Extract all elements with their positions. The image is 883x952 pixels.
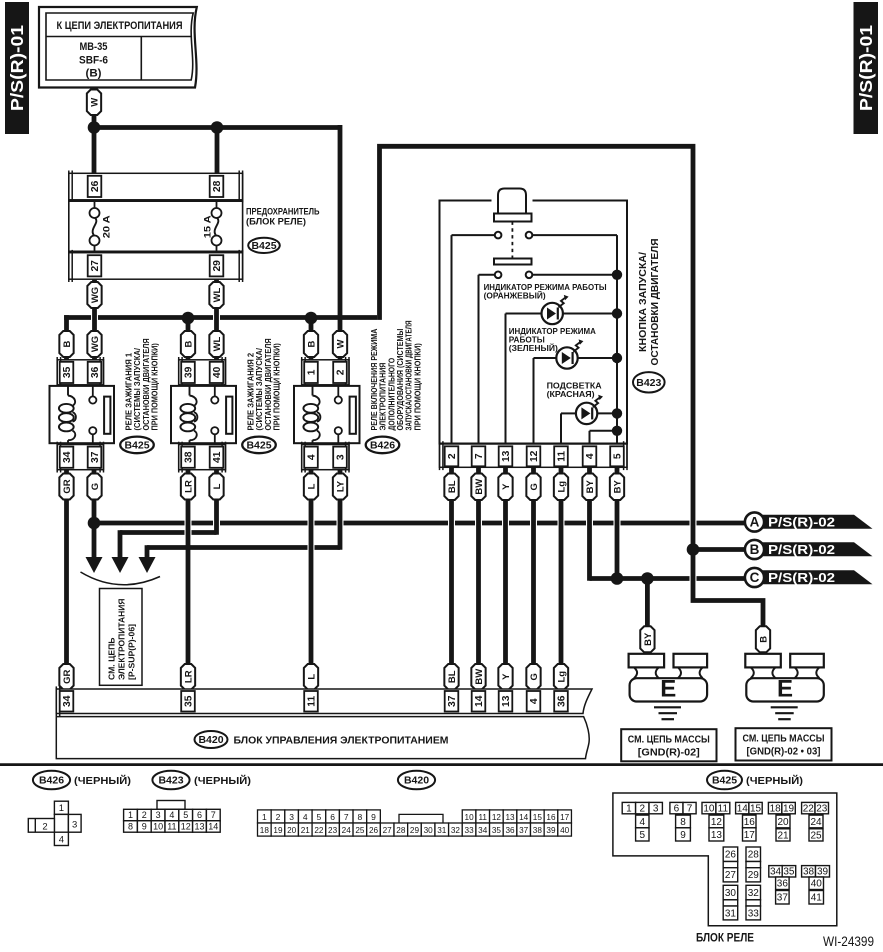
button pin 2 (445, 446, 459, 466)
wire button Lg to control unit (559, 460, 564, 695)
svg-text:B: B (62, 340, 73, 347)
svg-text:19: 19 (273, 826, 283, 835)
svg-text:26: 26 (90, 180, 101, 192)
header box K CEPI ELEKTROPITANIYA (39, 7, 197, 88)
svg-text:15 A: 15 A (202, 215, 213, 238)
svg-text:14: 14 (474, 695, 485, 707)
svg-text:11: 11 (478, 813, 487, 822)
svg-text:(ЧЕРНЫЙ): (ЧЕРНЫЙ) (74, 774, 131, 787)
wire fuse 29 output WL (214, 255, 219, 381)
svg-text:35: 35 (492, 826, 502, 835)
svg-text:3: 3 (156, 810, 161, 820)
svg-text:MB-35: MB-35 (80, 41, 108, 53)
svg-text:14: 14 (737, 804, 749, 815)
svg-text:16: 16 (744, 817, 756, 828)
svg-text:C: C (750, 570, 760, 585)
wire pin4 jog (590, 430, 618, 432)
B425 group 10-13 (702, 802, 716, 813)
svg-text:5: 5 (183, 810, 188, 820)
connector ref B425 fuse (248, 238, 280, 253)
svg-text:WL: WL (212, 287, 223, 302)
svg-text:36: 36 (557, 695, 568, 707)
svg-text:5: 5 (613, 453, 624, 459)
svg-text:39: 39 (184, 366, 195, 378)
wire label WG below fuse (87, 282, 101, 308)
svg-text:2: 2 (42, 821, 47, 832)
svg-text:W: W (335, 339, 346, 348)
svg-text:(СИСТЕМЫ ЗАПУСКА/: (СИСТЕМЫ ЗАПУСКА/ (133, 347, 142, 430)
arrow to power supply circuit 1 (86, 557, 103, 573)
svg-text:37: 37 (90, 451, 101, 463)
pin 26 (88, 176, 102, 197)
svg-text:12: 12 (181, 822, 191, 832)
svg-text:29: 29 (748, 870, 760, 881)
wire labels below button unit (444, 474, 458, 501)
svg-text:КНОПКА ЗАПУСКА/: КНОПКА ЗАПУСКА/ (638, 252, 649, 352)
svg-text:WG: WG (90, 287, 101, 303)
svg-text:(ЧЕРНЫЙ): (ЧЕРНЫЙ) (194, 774, 251, 787)
svg-text:[GND(R)-02 • 03]: [GND(R)-02 • 03] (747, 747, 821, 758)
svg-text:B425: B425 (251, 240, 276, 252)
svg-text:27: 27 (383, 826, 393, 835)
svg-text:ЭЛЕКТРОПИТАНИЯ: ЭЛЕКТРОПИТАНИЯ (116, 598, 126, 680)
left ground reference box (621, 729, 716, 761)
svg-text:41: 41 (212, 451, 223, 463)
svg-text:BW: BW (474, 669, 485, 685)
fuse block body (69, 201, 243, 251)
relay U2 bottom connector row (179, 445, 226, 470)
svg-text:32: 32 (748, 888, 760, 899)
svg-text:40: 40 (811, 879, 823, 890)
control unit box B420 (56, 717, 589, 759)
svg-text:ЗАПУСКА/ОСТАНОВКИ ДВИГАТЕЛЯ: ЗАПУСКА/ОСТАНОВКИ ДВИГАТЕЛЯ (405, 320, 414, 430)
svg-text:13: 13 (711, 830, 723, 841)
wire contact1 left to pin2 (452, 234, 495, 236)
svg-text:9: 9 (142, 822, 147, 832)
svg-text:G: G (90, 483, 101, 490)
svg-text:11: 11 (167, 822, 176, 832)
svg-text:12: 12 (711, 817, 723, 828)
svg-text:LR: LR (183, 480, 194, 493)
svg-text:32: 32 (451, 826, 461, 835)
svg-text:14: 14 (519, 813, 529, 822)
svg-text:WI-24399: WI-24399 (823, 934, 874, 949)
relay U3 coil (312, 386, 314, 396)
wire relay U3 pin4 L down to control unit (309, 460, 314, 695)
svg-text:К ЦЕПИ ЭЛЕКТРОПИТАНИЯ: К ЦЕПИ ЭЛЕКТРОПИТАНИЯ (57, 20, 183, 32)
wire labels below relay U2 (181, 474, 195, 500)
B425 column 32-33 (746, 885, 761, 900)
svg-text:SBF-6: SBF-6 (79, 55, 108, 67)
svg-text:B423: B423 (158, 775, 183, 787)
relay U2 contact (214, 386, 216, 396)
svg-text:41: 41 (811, 893, 823, 904)
svg-text:28: 28 (212, 180, 223, 192)
wire main feed bus y=127 (89, 125, 340, 130)
svg-text:LR: LR (183, 670, 194, 683)
junction dot feed-1 (88, 121, 101, 134)
svg-text:(ЗЕЛЕНЫЙ): (ЗЕЛЕНЫЙ) (509, 342, 558, 353)
junction dot node B (687, 543, 700, 556)
svg-text:12: 12 (492, 813, 502, 822)
svg-text:40: 40 (560, 826, 570, 835)
svg-text:22: 22 (314, 826, 324, 835)
wire labels above relay U2 (181, 331, 195, 357)
button pin 4 (583, 446, 597, 466)
wire fuse 27 output WG (92, 255, 97, 381)
LED2 green mode indicator (556, 347, 577, 368)
wire label WL below fuse (209, 282, 223, 308)
node A wire from relay U1 pin37 to banner A (94, 521, 185, 526)
svg-text:26: 26 (725, 850, 737, 861)
connector ref B426 for relay U3 (366, 437, 400, 454)
svg-text:24: 24 (810, 817, 822, 828)
wire relay U1 pin34 GR down to control unit (64, 460, 69, 695)
pin 28 (210, 176, 224, 197)
svg-text:[P-SUP(P)-06]: [P-SUP(P)-06] (126, 624, 136, 680)
relay U1 coil (67, 386, 69, 396)
button plunger dashed link (511, 222, 513, 259)
svg-text:26: 26 (369, 826, 379, 835)
svg-text:1: 1 (307, 369, 318, 375)
svg-text:15: 15 (750, 804, 762, 815)
svg-text:1: 1 (262, 812, 267, 822)
svg-text:12: 12 (529, 450, 540, 462)
page tab P/S(R)-01 left (5, 2, 29, 134)
switch contact pair 2 (495, 272, 502, 279)
svg-text:24: 24 (342, 826, 352, 835)
connector B425 relay box pin view (613, 793, 837, 926)
svg-text:ОСТАНОВКИ ДВИГАТЕЛЯ: ОСТАНОВКИ ДВИГАТЕЛЯ (142, 338, 151, 430)
svg-text:31: 31 (437, 826, 447, 835)
svg-text:BY: BY (612, 479, 623, 493)
junction dot node C / ground wire (641, 572, 654, 585)
connector ref B420 bottom (398, 771, 435, 790)
connector ref B425 for relay U2 (242, 437, 276, 454)
relay U2 body (171, 386, 236, 443)
svg-text:BL: BL (447, 670, 458, 683)
svg-text:ДОПОЛНИТЕЛЬНОГО: ДОПОЛНИТЕЛЬНОГО (387, 358, 396, 431)
wire B bus left drop to relay U1 pin35 (64, 315, 69, 364)
node B wire to banner B (693, 547, 745, 552)
svg-text:20 A: 20 A (101, 215, 112, 238)
svg-text:6: 6 (674, 804, 680, 815)
svg-text:28: 28 (748, 850, 760, 861)
right ground terminal E (745, 654, 781, 668)
wire labels below relay U3 (304, 474, 318, 500)
wire contact1 right to bus (532, 234, 617, 236)
B425 group 14-17 (736, 802, 749, 813)
svg-text:18: 18 (260, 826, 270, 835)
white gaps in box edge around button cap (492, 198, 533, 203)
button movable contact bar (494, 259, 532, 265)
svg-text:11: 11 (307, 696, 318, 707)
svg-text:(B): (B) (86, 68, 102, 80)
B425 column 28-29 (746, 847, 761, 862)
svg-text:ПРЕДОХРАНИТЕЛЬ: ПРЕДОХРАНИТЕЛЬ (246, 207, 320, 217)
svg-text:35: 35 (184, 695, 195, 707)
wire button Y to control unit (503, 460, 508, 695)
svg-text:[GND(R)-02]: [GND(R)-02] (638, 748, 700, 759)
B425 column 26-27 (723, 847, 738, 862)
junction dot feed-2 (211, 121, 224, 134)
button cap (498, 189, 526, 215)
svg-text:G: G (529, 673, 540, 680)
svg-text:P/S(R)-01: P/S(R)-01 (7, 25, 27, 111)
svg-text:39: 39 (817, 867, 829, 878)
wire relay U3 pin3 LY jog to arrow 3 (338, 460, 343, 550)
svg-text:4: 4 (585, 453, 596, 459)
svg-text:2: 2 (276, 812, 281, 822)
svg-text:18: 18 (770, 804, 782, 815)
svg-text:B425: B425 (712, 775, 737, 787)
svg-text:B425: B425 (124, 440, 149, 452)
svg-text:Lg: Lg (556, 481, 567, 493)
svg-text:BW: BW (474, 479, 485, 495)
svg-text:GR: GR (62, 669, 73, 683)
svg-text:7: 7 (687, 804, 693, 815)
svg-text:ПРИ ПОМОЩИ КНОПКИ): ПРИ ПОМОЩИ КНОПКИ) (273, 343, 282, 431)
B425 column 30-31 (723, 885, 738, 900)
svg-text:B: B (306, 340, 317, 347)
svg-text:B: B (750, 542, 760, 557)
svg-text:БЛОК УПРАВЛЕНИЯ ЭЛЕКТРОПИТАНИЕ: БЛОК УПРАВЛЕНИЯ ЭЛЕКТРОПИТАНИЕМ (234, 734, 449, 746)
B425 group 18-21 (768, 802, 781, 813)
svg-text:3: 3 (289, 812, 294, 822)
svg-text:38: 38 (533, 826, 543, 835)
svg-text:2: 2 (142, 810, 147, 820)
svg-text:14: 14 (208, 822, 218, 832)
svg-text:Lg: Lg (556, 671, 567, 683)
control unit pin 14 (472, 691, 486, 712)
svg-text:30: 30 (424, 826, 434, 835)
svg-text:(ОРАНЖЕВЫЙ): (ОРАНЖЕВЫЙ) (484, 290, 546, 301)
svg-text:9: 9 (371, 812, 376, 822)
svg-text:31: 31 (725, 908, 737, 919)
svg-text:(СИСТЕМЫ ЗАПУСКА/: (СИСТЕМЫ ЗАПУСКА/ (255, 347, 264, 430)
svg-text:34: 34 (62, 451, 73, 463)
svg-text:20: 20 (777, 817, 789, 828)
svg-text:ОСТАНОВКИ ДВИГАТЕЛЯ: ОСТАНОВКИ ДВИГАТЕЛЯ (264, 338, 273, 430)
control unit pin 4 (527, 691, 541, 712)
B425 group 38-41 (802, 866, 816, 877)
svg-text:P/S(R)-02: P/S(R)-02 (768, 515, 835, 530)
B425 group 1-5 (622, 802, 635, 813)
connector banner B to P/S(R)-02 (755, 542, 873, 556)
junction dot B bus / U2 (182, 312, 195, 325)
fuse F2 15A (212, 208, 222, 218)
wire junction to fuse 28 (215, 128, 220, 181)
svg-text:25: 25 (810, 830, 822, 841)
connector ref B423 (633, 372, 665, 392)
wire labels above control unit (59, 664, 73, 690)
svg-text:B423: B423 (636, 377, 661, 389)
svg-text:4: 4 (307, 454, 318, 460)
svg-text:17: 17 (560, 813, 570, 822)
svg-text:BL: BL (447, 480, 458, 493)
svg-text:13: 13 (501, 450, 512, 462)
svg-text:LY: LY (335, 480, 346, 492)
svg-text:33: 33 (748, 908, 760, 919)
wire relay U1 pin37 G down to node A line (92, 460, 97, 560)
svg-text:РЕЛЕ ВКЛЮЧЕНИЯ РЕЖИМА: РЕЛЕ ВКЛЮЧЕНИЯ РЕЖИМА (370, 328, 379, 430)
svg-text:25: 25 (355, 826, 365, 835)
LED3 red backlight wires (561, 412, 576, 414)
svg-text:L: L (306, 674, 317, 680)
svg-text:E: E (777, 676, 793, 703)
B425 group 6-9 (670, 802, 683, 813)
control unit pin 11 (304, 691, 318, 712)
wire button G to control unit (531, 460, 536, 695)
button unit connector row (440, 444, 628, 467)
svg-text:7: 7 (344, 812, 349, 822)
svg-text:2: 2 (336, 369, 347, 375)
connector ref B425 for relay U1 (120, 437, 154, 454)
wire vertical feed to relay U3 pin2 (338, 125, 343, 365)
connector B420 pin view (258, 810, 272, 823)
junction dot node C / BY pin5 (611, 572, 624, 585)
wire button BL to control unit (449, 460, 454, 695)
svg-text:3: 3 (72, 819, 77, 830)
relay U1 top connector row (57, 360, 103, 385)
svg-text:РЕЛЕ ЗАЖИГАНИЯ 1: РЕЛЕ ЗАЖИГАНИЯ 1 (124, 352, 133, 430)
svg-text:4: 4 (59, 835, 64, 846)
button pin 13 (499, 446, 513, 466)
svg-text:40: 40 (212, 366, 223, 378)
relay U1 bottom connector row (57, 445, 103, 470)
svg-text:16: 16 (546, 813, 556, 822)
svg-text:34: 34 (478, 826, 488, 835)
svg-text:35: 35 (783, 867, 795, 878)
junction dot node A / G wire (88, 517, 101, 530)
connector ref B425 bottom (707, 771, 742, 790)
wire labels below relay U1 (59, 474, 73, 500)
reference box SM. TSEP ELEKTROPITANIYA (100, 589, 143, 686)
control unit pin 13 (499, 691, 513, 712)
LED1 orange mode indicator (542, 303, 563, 324)
svg-text:30: 30 (725, 888, 737, 899)
svg-text:2: 2 (640, 804, 646, 815)
svg-text:7: 7 (474, 453, 485, 459)
wire B bus drop to relay U2 pin39 (186, 318, 191, 365)
wire frame feed: bus up, across top y=146, down right side to grounds (380, 146, 764, 630)
relay U1 contact (92, 386, 94, 396)
svg-text:28: 28 (396, 826, 406, 835)
svg-text:38: 38 (184, 451, 195, 463)
svg-text:L: L (306, 483, 317, 489)
svg-text:СМ. ЦЕПЬ: СМ. ЦЕПЬ (106, 637, 116, 680)
svg-text:2: 2 (447, 453, 458, 459)
svg-text:B420: B420 (404, 775, 429, 787)
connector B423 pin view (157, 801, 185, 810)
svg-text:3: 3 (653, 804, 659, 815)
svg-text:ОСТАНОВКИ ДВИГАТЕЛЯ: ОСТАНОВКИ ДВИГАТЕЛЯ (650, 239, 661, 366)
svg-text:20: 20 (287, 826, 297, 835)
svg-text:GR: GR (62, 479, 73, 493)
LED1 orange indicator wires (506, 313, 542, 315)
svg-text:(КРАСНАЯ): (КРАСНАЯ) (547, 389, 595, 399)
svg-text:5: 5 (640, 830, 646, 841)
svg-text:P/S(R)-02: P/S(R)-02 (768, 570, 835, 585)
svg-text:37: 37 (447, 695, 458, 707)
svg-text:33: 33 (465, 826, 475, 835)
svg-text:38: 38 (803, 867, 815, 878)
button pin 11 (554, 446, 568, 466)
pin 29 (210, 255, 224, 276)
svg-text:8: 8 (680, 817, 686, 828)
svg-text:4: 4 (529, 698, 540, 704)
wire contact2 right to bus (532, 274, 617, 276)
wire relay U2 pin41 L jog to arrow 2 (214, 460, 219, 535)
svg-text:B: B (758, 636, 769, 643)
svg-text:B425: B425 (246, 440, 271, 452)
svg-text:ЭЛЕКТРОПИТАНИЯ: ЭЛЕКТРОПИТАНИЯ (379, 362, 388, 430)
svg-text:13: 13 (194, 822, 204, 832)
svg-text:37: 37 (519, 826, 529, 835)
svg-text:11: 11 (557, 451, 568, 462)
arc under arrows (81, 572, 161, 585)
svg-text:34: 34 (62, 695, 73, 707)
svg-text:L: L (212, 483, 223, 489)
relay U1 body (50, 386, 115, 443)
svg-text:B420: B420 (198, 734, 223, 746)
wire button BW to control unit (476, 460, 481, 695)
svg-text:1: 1 (626, 804, 632, 815)
svg-text:4: 4 (640, 817, 646, 828)
wire button BY pin5 down to node C (615, 460, 620, 580)
svg-text:10: 10 (703, 804, 715, 815)
svg-text:СМ. ЦЕПЬ МАССЫ: СМ. ЦЕПЬ МАССЫ (743, 734, 825, 745)
button pin 12 (527, 446, 541, 466)
svg-text:4: 4 (169, 810, 174, 820)
svg-text:36: 36 (505, 826, 515, 835)
svg-text:5: 5 (317, 812, 322, 822)
wire labels above relay U3 (304, 331, 318, 357)
svg-text:1: 1 (59, 803, 64, 814)
arrow to power supply circuit 3 (139, 557, 156, 573)
svg-text:17: 17 (744, 830, 756, 841)
LED3 red backlight (576, 403, 597, 424)
svg-text:7: 7 (211, 810, 216, 820)
svg-text:27: 27 (725, 870, 737, 881)
svg-text:8: 8 (358, 812, 363, 822)
control unit pin 35 (181, 691, 195, 712)
B425 group 34-37 (769, 866, 782, 877)
button pin 5 (610, 446, 624, 466)
svg-text:10: 10 (465, 813, 475, 822)
svg-text:BY: BY (585, 479, 596, 493)
svg-text:21: 21 (777, 830, 789, 841)
button unit B423 outline (440, 201, 628, 444)
relay U3 bottom connector row (302, 445, 349, 470)
right ground reference box (736, 728, 832, 760)
svg-text:6: 6 (330, 812, 335, 822)
B425 group 22-25 (802, 802, 815, 813)
svg-text:19: 19 (783, 804, 795, 815)
svg-text:23: 23 (816, 804, 828, 815)
svg-text:WG: WG (90, 336, 101, 352)
svg-text:10: 10 (153, 822, 163, 832)
svg-text:Y: Y (501, 673, 512, 680)
svg-text:23: 23 (328, 826, 338, 835)
wire label W below header (87, 90, 101, 116)
svg-text:W: W (89, 98, 100, 107)
svg-text:9: 9 (680, 830, 686, 841)
separator line (0, 763, 883, 766)
svg-text:8: 8 (128, 822, 133, 832)
svg-text:Y: Y (501, 483, 512, 490)
fuse F1 20A (90, 208, 100, 218)
